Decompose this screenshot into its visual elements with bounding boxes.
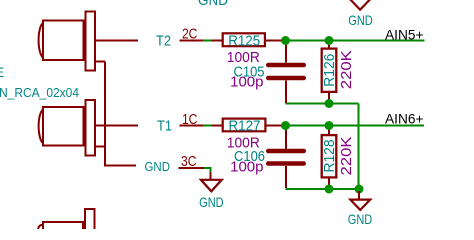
junction dot T2/R125/C105 [281,36,290,45]
wire T1 pin to R127 [203,125,212,127]
svg-text:100p: 100p [230,74,263,91]
junction dot T1/R128 [325,121,334,130]
capacitor C106 bottom pin [285,166,287,188]
capacitor C105 top pin [285,44,287,63]
svg-text:N_RCA_02x04: N_RCA_02x04 [0,85,79,100]
connector shield bus vertical line [105,62,136,166]
junction dot ground at GND symbol [355,185,364,194]
svg-text:AIN5+: AIN5+ [385,27,424,43]
svg-text:T2: T2 [156,32,171,49]
ground symbol at pin 3C: stub [210,172,212,179]
wire 3C pin to GND [204,168,211,173]
ground symbol bottom right: triangle [350,200,370,210]
wire R127 to AIN6+ [282,125,425,127]
junction dot T2/R126 [325,36,334,45]
wire R125 to AIN5+ [282,40,425,42]
svg-text:R128: R128 [321,140,338,173]
wire vertical down right side [358,104,360,190]
resistor R128 top pin [328,130,330,136]
resistor R125 body [223,33,265,46]
resistor R127 left pin [212,125,223,127]
svg-text:GND: GND [199,194,224,210]
connector J RCA jack 1 flange [86,12,96,71]
pin 1C line [180,125,204,127]
svg-text:GND: GND [198,0,228,9]
pin 3C line [179,167,205,169]
wire C105/R126 bottoms horizontal [286,103,359,105]
connector J RCA jack 1 shield step line [96,61,105,63]
capacitor C106 plates [268,151,303,164]
svg-text:R126: R126 [321,54,338,87]
ground symbol top right (clipped): triangle V [349,0,371,10]
svg-text:220K: 220K [338,137,355,176]
resistor R126 top pin [328,44,330,49]
resistor R128 bottom pin [328,178,330,189]
connector J RCA jack 1 cylinder body [39,21,84,61]
ground symbol bottom right: stub [358,191,360,200]
connector J RCA jack 1 center pin graphic line [96,40,138,42]
svg-text:GND: GND [145,159,171,174]
svg-text:E: E [0,64,4,80]
wire T2 pin to R125 [203,40,212,42]
pin 2C line [180,40,204,42]
svg-text:GND: GND [348,12,373,28]
connector J RCA jack 3 cylinder cap arc (partial) [38,225,43,229]
connector J RCA jack 2 center pin graphic line [96,125,138,127]
wire bottom ground horizontal [286,188,360,190]
svg-text:T1: T1 [157,117,172,134]
connector J RCA jack 2 cylinder body [39,107,84,146]
connector J RCA jack 3 cylinder body (partial) [43,222,83,234]
resistor R126 bottom pin [328,93,330,104]
svg-text:100p: 100p [230,158,263,175]
connector J RCA jack 3 flange (partial) [85,209,95,234]
connector J RCA jack 2 flange [86,100,96,156]
svg-text:220K: 220K [338,50,355,89]
resistor R127 right pin [266,125,282,127]
svg-text:R125: R125 [228,32,260,49]
junction dot R128 bottom ground [325,185,334,194]
resistor R125 left pin [212,40,223,42]
svg-text:GND: GND [348,211,373,227]
connector J RCA jack 2 shield step line [96,146,104,148]
resistor R128 body [322,135,337,177]
capacitor C105 bottom pin [285,81,287,104]
resistor R125 right pin [266,40,282,42]
capacitor C106 top pin [285,130,287,150]
svg-text:R127: R127 [229,118,261,135]
junction dot T1/R127/C106 [281,121,290,130]
ground symbol at pin 3C: triangle [201,180,222,192]
resistor R126 body [322,49,337,92]
resistor R127 body [223,119,266,132]
junction dot C105/R126 ground mid [325,99,334,108]
capacitor C105 plates [268,65,303,78]
svg-text:AIN6+: AIN6+ [385,110,424,126]
